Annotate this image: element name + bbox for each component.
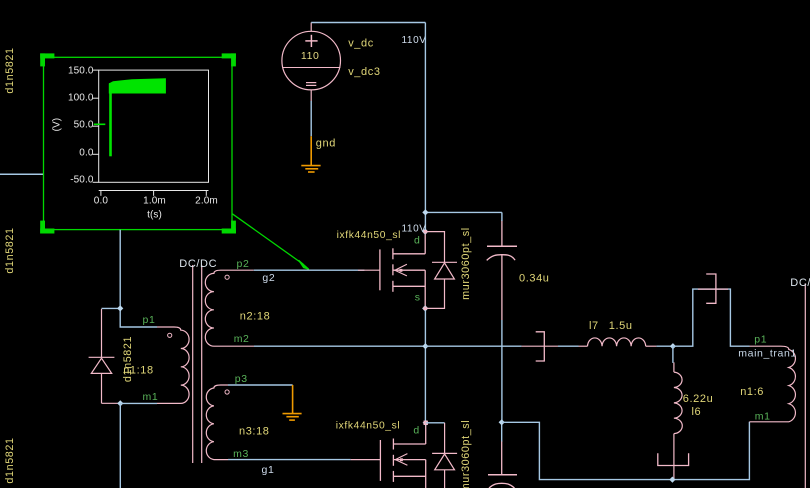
svg-text:mur3060pt_sl: mur3060pt_sl xyxy=(460,420,472,488)
svg-text:m1: m1 xyxy=(755,411,771,423)
svg-text:m1: m1 xyxy=(143,391,159,403)
pin square Q1 source xyxy=(423,307,427,311)
current probe 3 (on l6 branch) xyxy=(658,453,689,465)
inductor L6 6.22u xyxy=(674,362,682,479)
pin square Q1 drain xyxy=(424,230,428,234)
diode d1n5821 xyxy=(89,309,121,403)
svg-text:150.0: 150.0 xyxy=(68,65,94,76)
pin square Q2 drain xyxy=(424,421,428,425)
wire node to l6 xyxy=(672,346,674,363)
svg-text:0.0: 0.0 xyxy=(94,195,109,206)
svg-text:0.0: 0.0 xyxy=(79,147,94,158)
waveform plot callout box (green frame) xyxy=(40,53,236,233)
junction diamond at 501,422 xyxy=(499,419,505,425)
mosfet Q2 ixfk44n50_sl lower xyxy=(380,423,425,488)
transformer winding n1:18 (primary left) xyxy=(157,327,189,403)
svg-text:p1: p1 xyxy=(754,334,767,346)
svg-text:1.5u: 1.5u xyxy=(609,320,633,332)
svg-text:110V: 110V xyxy=(402,35,427,46)
svg-text:n3:18: n3:18 xyxy=(239,425,270,437)
mosfet Q1 ixfk44n50_sl xyxy=(380,232,425,309)
svg-text:v_dc: v_dc xyxy=(348,38,374,50)
polarity dot winding2 xyxy=(225,275,229,279)
svg-text:v_dc3: v_dc3 xyxy=(348,66,380,78)
plot axes xyxy=(93,70,209,196)
polarity dot winding3 xyxy=(225,390,229,394)
wire node to main_tran1 p1 (staircase) xyxy=(673,289,750,346)
wire cap bus upper xyxy=(501,212,503,221)
svg-text:l7: l7 xyxy=(589,320,599,332)
junction diamond at 673,346 xyxy=(670,343,676,349)
wire left edge net at y=164 xyxy=(0,173,43,175)
diode D4 mur3060pt_sl lower xyxy=(432,423,457,488)
wire net g1 (m3 to gate) xyxy=(228,459,351,461)
svg-text:d: d xyxy=(413,424,419,436)
svg-text:n1:6: n1:6 xyxy=(740,386,764,398)
svg-text:110V: 110V xyxy=(402,224,427,235)
svg-text:p1: p1 xyxy=(143,314,156,326)
junction diamond at 120,308 xyxy=(117,305,123,311)
plot y-axis labels xyxy=(68,65,94,185)
junction diamond Q1 drain xyxy=(422,228,428,234)
transformer main_tran1 winding n1:6 xyxy=(749,346,795,422)
svg-text:(V): (V) xyxy=(52,118,63,132)
svg-text:0.34u: 0.34u xyxy=(519,273,550,285)
svg-text:ixfk44n50_sl: ixfk44n50_sl xyxy=(337,230,401,241)
svg-text:s: s xyxy=(415,292,421,304)
wire net g2 (p2 to gate) xyxy=(254,269,365,271)
svg-text:2.0m: 2.0m xyxy=(195,195,218,206)
wire net p3 to ground xyxy=(228,384,293,386)
wire main bus x=425 xyxy=(424,23,426,423)
polarity dot winding1 xyxy=(168,333,172,337)
svg-text:DC/DC: DC/DC xyxy=(790,277,810,289)
svg-text:gnd: gnd xyxy=(316,137,336,149)
transformer winding n2:18 xyxy=(205,270,254,346)
junction diamond at 672,479 xyxy=(669,476,675,482)
wire m2 net to probe and l7 xyxy=(425,345,587,347)
junction diamond at 425,345 xyxy=(422,343,428,349)
ground gnd (v_dc) xyxy=(301,136,320,172)
svg-text:50.0: 50.0 xyxy=(74,119,94,130)
green callout arrow to node g2 xyxy=(232,214,308,269)
transformer main_tran1 core line xyxy=(804,283,806,488)
svg-text:main_tran1: main_tran1 xyxy=(738,347,797,359)
diode D2 mur3060pt_sl upper xyxy=(425,232,457,309)
svg-text:n2:18: n2:18 xyxy=(240,310,271,322)
inductor L7 1.5u xyxy=(588,338,646,346)
ground at p3 xyxy=(283,385,302,420)
svg-text:d1n5821: d1n5821 xyxy=(4,47,16,93)
wire left bus x=120 upper xyxy=(120,230,157,327)
svg-text:t(s): t(s) xyxy=(147,210,162,221)
wire v_dc top to bus xyxy=(311,22,425,24)
svg-text:6.22u: 6.22u xyxy=(683,393,714,405)
capacitor C1 0.34u xyxy=(487,220,517,320)
svg-text:p2: p2 xyxy=(237,258,250,270)
svg-text:mur3060pt_sl: mur3060pt_sl xyxy=(460,227,472,300)
svg-text:d1n5821: d1n5821 xyxy=(4,437,16,483)
junction at 425,212 xyxy=(422,209,428,215)
plot x-axis labels xyxy=(94,195,218,220)
junction diamond at 120,403 xyxy=(117,400,123,406)
svg-text:d1n5821: d1n5821 xyxy=(4,227,16,273)
junction diamond at 425,422 xyxy=(423,420,429,426)
wire net m2 xyxy=(254,345,425,347)
wire diode branch top y=308.4 xyxy=(102,307,121,309)
transformer winding n3:18 xyxy=(206,385,228,460)
svg-text:d1n5821: d1n5821 xyxy=(122,336,134,382)
wire bottom right net xyxy=(502,422,750,480)
wire v_dc bottom to gnd xyxy=(310,101,312,136)
svg-text:DC/DC: DC/DC xyxy=(179,258,217,270)
capacitor C2 lower xyxy=(488,441,517,488)
svg-text:d: d xyxy=(414,235,420,247)
wire m1 and left bus lower xyxy=(120,403,157,488)
svg-text:m3: m3 xyxy=(233,448,249,460)
current probe 1 (on m2 net) xyxy=(536,332,545,361)
svg-text:100.0: 100.0 xyxy=(68,92,94,103)
wire Q2 drain node to diode xyxy=(426,422,445,424)
current probe 2 (top) xyxy=(706,274,716,303)
transformer DC/DC core xyxy=(193,265,202,463)
plot green waveform trace xyxy=(94,78,166,156)
wire l7 to node xyxy=(646,345,657,347)
voltage source v_dc3 xyxy=(282,23,341,102)
svg-text:g2: g2 xyxy=(262,272,275,284)
svg-text:110: 110 xyxy=(301,50,320,62)
svg-text:ixfk44n50_sl: ixfk44n50_sl xyxy=(336,421,400,432)
junction diamond Q1 source xyxy=(422,305,428,311)
svg-text:m2: m2 xyxy=(234,333,250,345)
svg-text:1.0m: 1.0m xyxy=(143,195,166,206)
wire junction 501,422 to cap2 xyxy=(501,422,503,441)
wire bus to cap at y=212.4 xyxy=(425,211,502,213)
svg-text:-50.0: -50.0 xyxy=(70,174,94,185)
svg-text:l6: l6 xyxy=(692,406,702,418)
svg-text:g1: g1 xyxy=(262,464,275,476)
svg-text:p3: p3 xyxy=(235,373,248,385)
